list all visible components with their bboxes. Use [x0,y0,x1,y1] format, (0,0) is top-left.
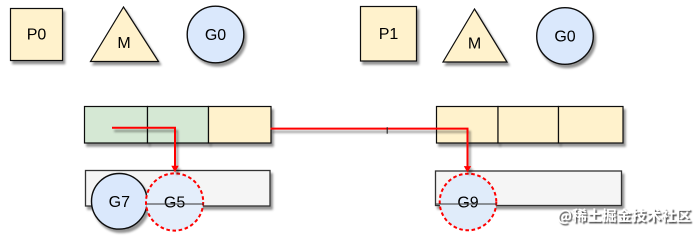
watermark [558,208,691,224]
junction tick on long red wire [387,127,388,134]
wire bar to G9 [435,203,497,205]
svg-text:G9: G9 [457,195,478,212]
run queue P0: cell 3 (yellow) [209,107,272,144]
processor P0 [11,9,63,61]
svg-text:G7: G7 [109,194,130,211]
svg-text:P1: P1 [379,26,399,43]
svg-text:G0: G0 [554,29,575,46]
run queue P0: cell 1 (green) [85,107,148,144]
machine M (right) [443,9,507,62]
free slot bar (left) [86,171,271,207]
run queue P0: cell 2 (green) [148,107,209,144]
goroutine G0 (right) [537,8,594,65]
red connector: queue cell 2 to P1 queue to G9 (main run) [271,129,472,173]
run queue P1: cell 3 (yellow) [559,107,624,144]
svg-text:M: M [117,35,130,52]
run queue P1: cell 1 (yellow) [437,107,499,144]
goroutine G7 [92,174,148,230]
machine M (left) [91,7,159,62]
red connector: queue cell 1 to G5 [112,128,179,172]
goroutine G9 (dashed, stolen) [440,174,497,231]
run queue P1: cell 2 (yellow) [498,107,559,144]
red connector: queue cell 2 to P1 queue to G9 (segment inside left queue, muted) [185,128,271,130]
goroutine G5 (dashed, freed) [146,173,203,230]
wire G7 to G5 [147,203,204,205]
svg-text:M: M [468,36,481,53]
svg-text:G0: G0 [205,27,226,44]
svg-text:P0: P0 [27,27,47,44]
processor P1 [361,7,417,62]
goroutine G0 (left) [187,6,244,63]
svg-text:G5: G5 [164,195,185,212]
free slot bar (right) [436,171,622,206]
